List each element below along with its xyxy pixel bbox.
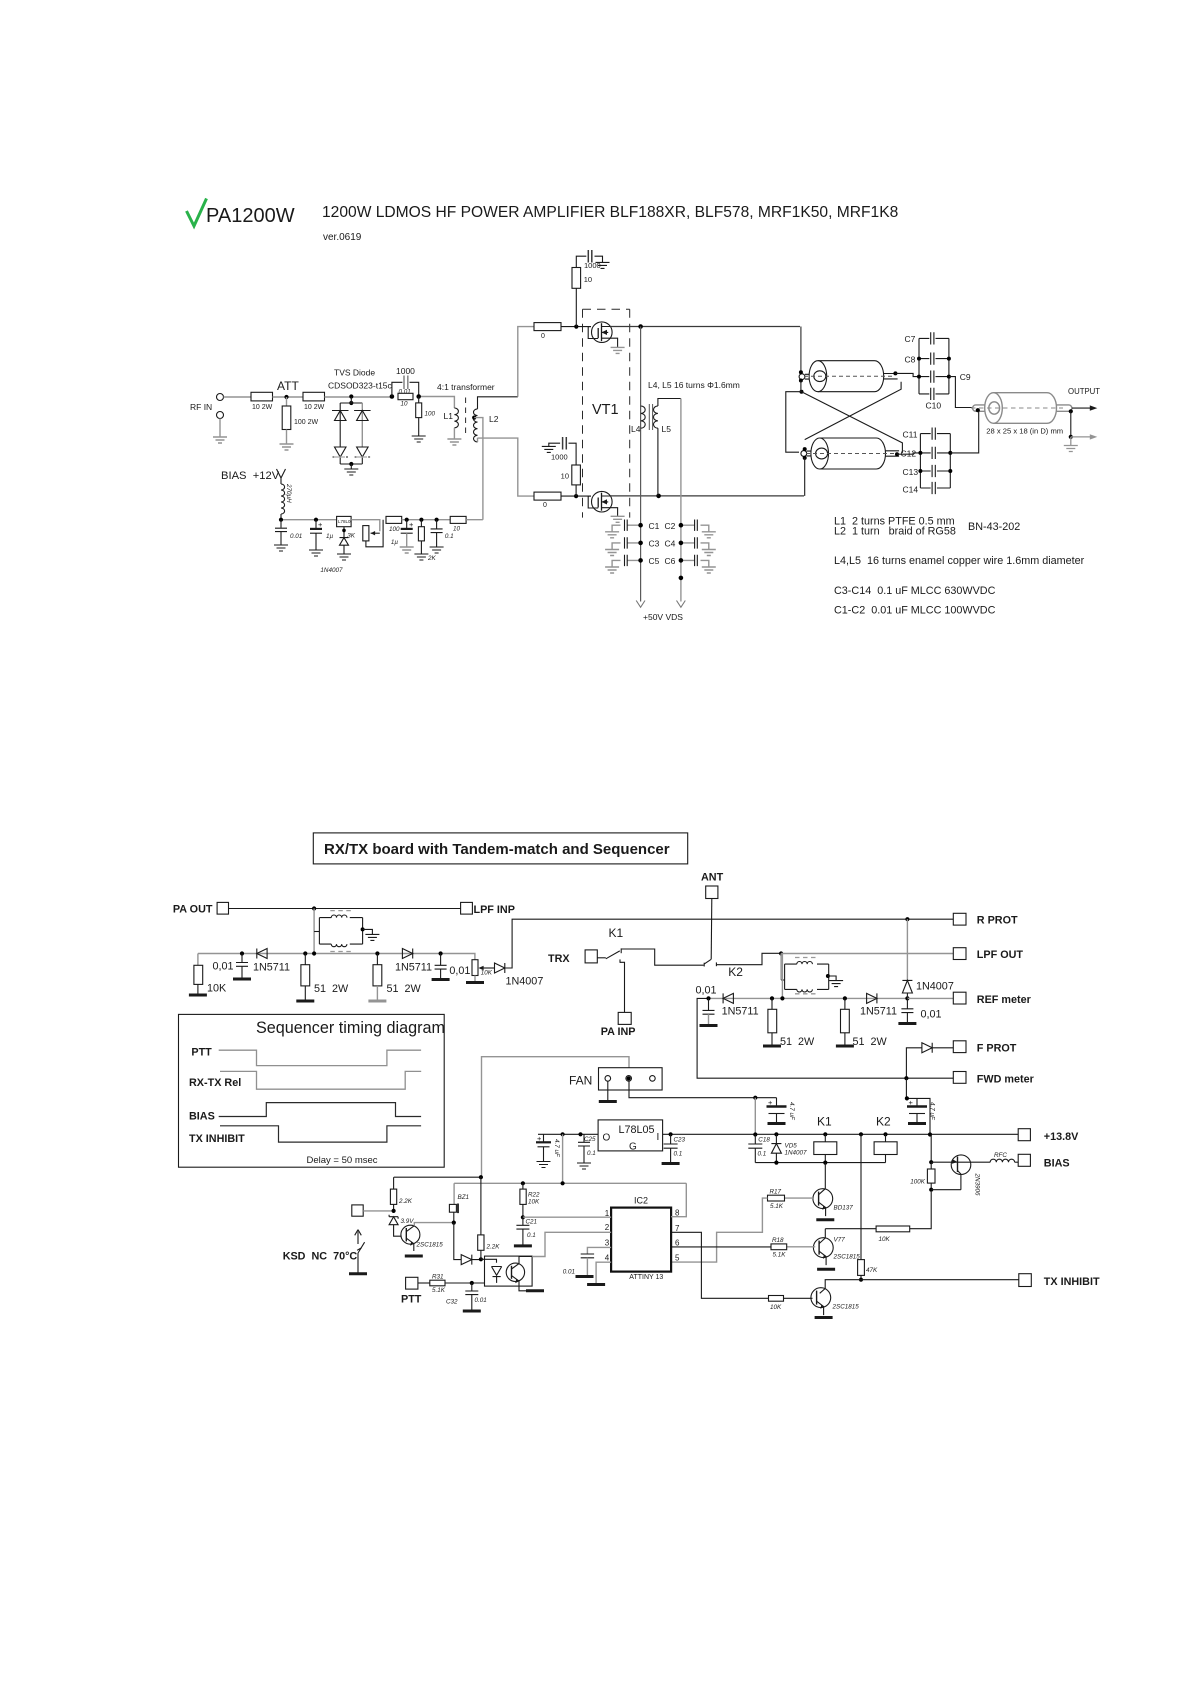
svg-text:1000: 1000 xyxy=(396,366,415,376)
ground xyxy=(1064,446,1078,452)
svg-text:+: + xyxy=(909,1098,914,1107)
node xyxy=(479,1175,483,1179)
wire R17 to pin5 path xyxy=(671,1198,767,1262)
wire PA OUT to LPF INP xyxy=(229,908,461,910)
capacitor 0.1 xyxy=(431,520,454,547)
SEQUENCER TIMING DIAGRAM xyxy=(179,1014,445,1167)
svg-text:K1: K1 xyxy=(817,1115,832,1129)
resistor R17 xyxy=(768,1189,785,1211)
node xyxy=(479,1257,483,1261)
capacitor 0,01 xyxy=(212,954,248,980)
pad BIAS xyxy=(1018,1154,1069,1169)
node xyxy=(904,1076,908,1080)
capacitor 4.7uF b xyxy=(907,1098,936,1122)
svg-text:+: + xyxy=(409,520,414,529)
svg-text:10: 10 xyxy=(561,472,569,481)
svg-text:28 x 25 x 18 (in D) mm: 28 x 25 x 18 (in D) mm xyxy=(986,427,1063,436)
ground xyxy=(662,1163,680,1165)
ground xyxy=(296,1000,314,1002)
svg-text:10 2W: 10 2W xyxy=(304,404,325,411)
svg-text:L1: L1 xyxy=(444,411,454,421)
wire pin4 ground xyxy=(596,1262,611,1284)
ground xyxy=(587,1284,605,1286)
inductor L1 xyxy=(444,408,459,439)
node xyxy=(859,1132,863,1136)
output coax stub left xyxy=(973,405,989,411)
svg-text:5.1K: 5.1K xyxy=(432,1287,446,1294)
capacitor 4.7uF c xyxy=(536,1134,560,1162)
wire REF meter xyxy=(907,997,953,999)
pad ANT xyxy=(701,872,724,899)
svg-text:10: 10 xyxy=(584,275,592,284)
ground source lower xyxy=(611,516,625,522)
svg-text:LPF OUT: LPF OUT xyxy=(977,949,1024,961)
wire LPF OUT xyxy=(781,953,953,955)
TVS diode bridge xyxy=(332,397,371,469)
wire upper drain to coax xyxy=(800,327,802,371)
ground xyxy=(596,262,610,268)
capacitor C4 xyxy=(665,537,709,549)
arrow +50V VDS left xyxy=(636,601,645,608)
ground opto xyxy=(526,1290,544,1292)
svg-text:L4,L5 16 turns enamel copper: L4,L5 16 turns enamel copper wire 1.6mm … xyxy=(834,555,1085,567)
lower coax stub xyxy=(801,447,813,460)
relay K1 contacts xyxy=(597,948,703,965)
relay coil K2 xyxy=(874,1115,897,1163)
wire ANT to K2 xyxy=(710,899,713,960)
resistor 51 2W a xyxy=(301,954,349,1002)
svg-text:TX INHIBIT: TX INHIBIT xyxy=(1044,1276,1100,1288)
svg-text:C3-C14 0.1 uF MLCC 630WVDC: C3-C14 0.1 uF MLCC 630WVDC xyxy=(834,585,996,597)
VT1 dashed box xyxy=(583,309,630,517)
ground xyxy=(817,1268,835,1270)
drain line B xyxy=(680,399,682,602)
svg-text:1N4007: 1N4007 xyxy=(785,1150,808,1157)
svg-text:CDSOD323-t15c: CDSOD323-t15c xyxy=(328,381,393,391)
IC2 xyxy=(605,1196,680,1282)
svg-text:VT1: VT1 xyxy=(592,402,619,418)
wire drain upper xyxy=(611,326,801,328)
node xyxy=(779,951,783,955)
+5V rail xyxy=(562,1134,564,1183)
svg-text:2SC1815: 2SC1815 xyxy=(833,1254,861,1261)
node drain upper xyxy=(638,324,643,329)
diode 1N5711 a xyxy=(253,949,290,974)
svg-text:C25: C25 xyxy=(584,1136,596,1143)
svg-text:5.1K: 5.1K xyxy=(770,1203,784,1210)
regulator L78L05 xyxy=(598,1120,663,1153)
ground xyxy=(430,547,444,553)
svg-text:1N5711: 1N5711 xyxy=(722,1006,759,1018)
resistor 0 gate upper xyxy=(534,323,561,340)
svg-text:ATTINY 13: ATTINY 13 xyxy=(629,1274,663,1281)
ground xyxy=(576,1276,594,1278)
zener 3.9V xyxy=(389,1215,414,1237)
svg-text:47K: 47K xyxy=(866,1267,878,1274)
wire pin3 cap xyxy=(563,1247,611,1275)
svg-text:4.7 uF: 4.7 uF xyxy=(788,1102,795,1121)
capacitor 0,01 d xyxy=(901,998,941,1023)
svg-text:C2: C2 xyxy=(665,521,676,531)
node ATT xyxy=(284,395,288,399)
svg-text:1N4007: 1N4007 xyxy=(506,976,544,988)
svg-text:C13: C13 xyxy=(903,467,919,477)
ground xyxy=(432,979,450,981)
node gate lower xyxy=(574,494,578,498)
wire L2 top to gate line xyxy=(478,397,518,409)
ground xyxy=(344,469,358,475)
wire xyxy=(325,396,393,398)
svg-text:C12: C12 xyxy=(901,449,917,459)
pad LPF INP xyxy=(461,902,515,916)
svg-text:270µH: 270µH xyxy=(285,483,292,503)
logo checkmark xyxy=(187,199,207,227)
node xyxy=(929,1188,933,1192)
resistor R31 xyxy=(418,1274,485,1295)
resistor 10K base q4 xyxy=(769,1296,784,1312)
svg-text:0.1: 0.1 xyxy=(674,1151,683,1158)
wire pin7 to 10K xyxy=(671,1232,768,1298)
diode 1N5711 c xyxy=(722,993,759,1017)
svg-text:L78L05: L78L05 xyxy=(619,1124,655,1136)
node xyxy=(349,394,353,398)
thermal switch KSD xyxy=(355,1230,365,1274)
svg-text:C1: C1 xyxy=(649,521,660,531)
ground xyxy=(400,547,414,553)
svg-text:51 2W: 51 2W xyxy=(780,1036,815,1048)
resistor R22 xyxy=(520,1183,540,1217)
node L2 tap xyxy=(472,416,476,420)
svg-text:PA INP: PA INP xyxy=(601,1026,636,1038)
diode F PROT xyxy=(906,1043,953,1078)
svg-text:0.01: 0.01 xyxy=(563,1269,575,1276)
svg-text:LPF INP: LPF INP xyxy=(474,904,515,916)
resistor 47K xyxy=(858,1260,878,1280)
svg-text:BIAS +12V: BIAS +12V xyxy=(221,470,280,482)
svg-text:L78L0: L78L0 xyxy=(338,519,351,524)
node xyxy=(1069,409,1073,413)
svg-text:C9: C9 xyxy=(960,372,971,382)
node xyxy=(753,1132,757,1136)
svg-text:BD137: BD137 xyxy=(834,1205,854,1212)
svg-text:10K: 10K xyxy=(481,969,493,976)
svg-text:0.1: 0.1 xyxy=(758,1151,767,1158)
pad R PROT xyxy=(953,913,1018,926)
resistor 10 2W second xyxy=(303,392,325,411)
svg-text:1200W LDMOS HF POWER AMPLIFIER: 1200W LDMOS HF POWER AMPLIFIER BLF188XR,… xyxy=(322,204,898,221)
bias input fork xyxy=(277,469,286,484)
svg-text:6: 6 xyxy=(675,1238,680,1247)
resistor 0 gate lower xyxy=(534,492,561,509)
svg-text:10: 10 xyxy=(401,401,409,408)
ground xyxy=(702,532,716,538)
svg-text:C23: C23 xyxy=(674,1137,686,1144)
svg-text:+13.8V: +13.8V xyxy=(1044,1131,1079,1143)
wire xyxy=(561,495,591,497)
svg-text:C11: C11 xyxy=(903,430,918,440)
svg-text:TX INHIBIT: TX INHIBIT xyxy=(189,1133,245,1145)
svg-text:0.01: 0.01 xyxy=(475,1297,487,1304)
svg-text:ANT: ANT xyxy=(701,872,724,884)
pad PA INP xyxy=(601,1012,636,1038)
wire pin8 riser xyxy=(671,1183,686,1216)
ground xyxy=(349,1273,367,1275)
svg-text:C4: C4 xyxy=(665,539,676,549)
wire xyxy=(466,519,483,521)
ground xyxy=(337,554,351,560)
ground xyxy=(829,981,843,987)
svg-text:100: 100 xyxy=(389,526,400,533)
svg-text:10K: 10K xyxy=(770,1304,782,1311)
svg-text:K2: K2 xyxy=(876,1115,891,1129)
svg-text:BIAS: BIAS xyxy=(189,1111,215,1123)
wire bz1 node down to diode xyxy=(454,1223,461,1260)
svg-text:Sequencer timing diagram: Sequencer timing diagram xyxy=(256,1019,445,1037)
svg-text:1N5711: 1N5711 xyxy=(395,962,432,974)
svg-text:C21: C21 xyxy=(526,1219,538,1226)
output coax cylinder xyxy=(971,393,1072,424)
wire braid link left xyxy=(786,381,802,453)
ground xyxy=(816,1219,834,1221)
node xyxy=(905,996,909,1000)
svg-text:0,01: 0,01 xyxy=(921,1009,942,1021)
diode 1N4007 xyxy=(320,527,348,574)
svg-text:V77: V77 xyxy=(834,1237,846,1244)
svg-text:5.1K: 5.1K xyxy=(773,1252,787,1259)
core bars xyxy=(649,404,652,430)
ground xyxy=(537,1162,551,1168)
optocoupler PC1 xyxy=(481,1256,532,1286)
svg-text:0: 0 xyxy=(543,502,547,509)
wire left leg to FWD line xyxy=(697,998,953,1078)
node xyxy=(375,951,379,955)
svg-text:R17: R17 xyxy=(770,1189,782,1196)
svg-text:RX/TX board with Tandem-match: RX/TX board with Tandem-match and Sequen… xyxy=(324,841,670,858)
diode 1N5711 b xyxy=(395,949,432,974)
svg-text:C7: C7 xyxy=(905,334,916,344)
capacitor C5 xyxy=(612,555,660,567)
ground xyxy=(898,1023,916,1025)
capacitor C1 xyxy=(612,520,660,532)
transistor VT1b mosfet xyxy=(588,491,617,516)
feedback resistor 10 upper xyxy=(572,268,592,327)
svg-text:0.01: 0.01 xyxy=(290,533,302,540)
output arrow upper xyxy=(1072,405,1097,410)
ground xyxy=(702,567,716,573)
svg-text:2N3906: 2N3906 xyxy=(974,1173,981,1197)
svg-text:+50V VDS: +50V VDS xyxy=(643,612,683,622)
inductor RFC xyxy=(990,1152,1018,1162)
svg-text:R22: R22 xyxy=(528,1192,540,1199)
svg-text:1µ: 1µ xyxy=(326,533,334,540)
capacitor C23 xyxy=(664,1134,686,1163)
node xyxy=(706,996,710,1000)
ground xyxy=(815,1317,833,1319)
node xyxy=(976,408,980,412)
wire to C11 bank xyxy=(897,453,920,454)
svg-text:4: 4 xyxy=(605,1254,610,1263)
capacitor 1u polarized second xyxy=(391,520,414,547)
svg-text:1N4007: 1N4007 xyxy=(320,567,343,574)
capacitor bank C11-C14 xyxy=(901,428,953,495)
node xyxy=(753,1096,757,1100)
ground xyxy=(233,978,251,980)
board title box xyxy=(313,833,687,864)
node low stub xyxy=(800,390,804,394)
ground xyxy=(412,436,426,442)
capacitor C3 xyxy=(612,537,660,549)
wire L5 bottom to lower drain xyxy=(657,428,659,496)
svg-text:L4, L5 16 turns Φ1.6mm: L4, L5 16 turns Φ1.6mm xyxy=(648,380,740,390)
resistor 100 2W xyxy=(282,397,318,444)
connector FAN xyxy=(569,1068,662,1090)
transistor 2N3906 xyxy=(931,1155,990,1196)
+13.8V rail xyxy=(663,1133,1019,1135)
svg-text:2SC1815: 2SC1815 xyxy=(416,1242,444,1249)
wire lower coax down link xyxy=(804,458,806,496)
capacitor 4.7uF a xyxy=(767,1098,796,1123)
ground xyxy=(447,439,461,445)
svg-text:I: I xyxy=(657,1132,660,1143)
ground xyxy=(763,1045,781,1047)
svg-text:REF meter: REF meter xyxy=(977,994,1032,1006)
svg-text:L5: L5 xyxy=(662,424,672,434)
svg-text:K2: K2 xyxy=(728,965,743,979)
node xyxy=(312,906,316,910)
node xyxy=(521,1181,525,1185)
inductor 270uH xyxy=(281,483,292,520)
node xyxy=(679,576,684,581)
resistor 10K collector xyxy=(825,1192,931,1243)
node drain lower xyxy=(656,494,661,499)
resistor 100 xyxy=(416,397,436,437)
svg-text:+: + xyxy=(768,1098,773,1107)
svg-text:PTT: PTT xyxy=(401,1294,422,1306)
pad PA OUT xyxy=(173,902,229,915)
svg-text:BN-43-202: BN-43-202 xyxy=(968,521,1020,533)
pad FWD meter xyxy=(953,1072,1034,1086)
ground xyxy=(466,982,484,984)
capacitor C18 xyxy=(748,1135,770,1163)
svg-text:R18: R18 xyxy=(772,1237,784,1244)
resistor 10K xyxy=(194,954,227,996)
ground xyxy=(463,1310,481,1312)
capacitor 1u polarized xyxy=(310,520,334,550)
ground xyxy=(836,1045,854,1047)
transistor Q4 2SC1815 xyxy=(784,1288,860,1315)
capacitor C2 xyxy=(665,520,709,532)
diode VD5 1N4007 xyxy=(771,1134,807,1164)
svg-text:F PROT: F PROT xyxy=(977,1043,1017,1055)
svg-text:C3: C3 xyxy=(649,539,660,549)
ground xyxy=(605,532,619,538)
svg-text:OUTPUT: OUTPUT xyxy=(1068,387,1100,396)
svg-text:ver.0619: ver.0619 xyxy=(323,232,362,243)
svg-text:10K: 10K xyxy=(207,983,227,995)
node xyxy=(859,1278,863,1282)
wire bank to output coax xyxy=(949,377,973,408)
sequencer input: 13.8 line xyxy=(394,1176,481,1178)
connector RF IN xyxy=(217,394,224,438)
wire R22 node to pin1 xyxy=(523,1216,611,1218)
svg-text:3: 3 xyxy=(605,1238,610,1247)
wire fan to rail xyxy=(629,1081,777,1098)
svg-text:1N4007: 1N4007 xyxy=(916,981,954,993)
wire xyxy=(273,396,304,398)
svg-text:KSD NC 70°C: KSD NC 70°C xyxy=(283,1250,358,1262)
wire pin6 to R18 xyxy=(671,1246,771,1248)
resistor 100 xyxy=(386,516,402,533)
svg-text:4.7 uF: 4.7 uF xyxy=(553,1139,560,1158)
svg-text:1N5711: 1N5711 xyxy=(860,1006,897,1018)
cross wire 2 xyxy=(805,382,901,440)
svg-text:PA1200W: PA1200W xyxy=(206,205,295,227)
pad TX INHIBIT xyxy=(1019,1274,1100,1288)
svg-text:C32: C32 xyxy=(446,1299,458,1306)
ground xyxy=(405,1255,423,1257)
svg-text:10: 10 xyxy=(453,526,461,533)
ground source upper xyxy=(611,347,625,353)
node fan feed xyxy=(627,1076,631,1080)
wire xyxy=(561,326,591,328)
wire 13.8 to 2N3906 xyxy=(930,1135,932,1163)
svg-text:RF IN: RF IN xyxy=(190,402,212,412)
transistor VT1a mosfet xyxy=(588,322,617,347)
resistor 51 2W b xyxy=(373,954,422,1002)
wire opto collector to pin2 xyxy=(532,1232,611,1256)
resistor 51 2W d xyxy=(841,998,888,1048)
node xyxy=(561,1181,565,1185)
resistor 51 2W c xyxy=(768,998,815,1048)
ground xyxy=(577,1163,591,1169)
svg-text:0,01: 0,01 xyxy=(449,965,470,977)
bias rail wire xyxy=(281,519,337,521)
node xyxy=(561,1132,565,1136)
wire 13.8V feed to sequencer xyxy=(482,1057,630,1178)
capacitor 0,01 c xyxy=(696,985,717,1026)
wire L5 top to line B xyxy=(658,399,681,407)
svg-text:PA OUT: PA OUT xyxy=(173,904,213,916)
rail wire tandem 1 xyxy=(198,954,475,960)
wire regulator output xyxy=(538,1133,598,1135)
capacitor C32 xyxy=(446,1283,487,1311)
ground xyxy=(280,444,294,450)
inductor L2 xyxy=(474,409,499,442)
svg-text:+: + xyxy=(318,520,323,529)
svg-text:BIAS: BIAS xyxy=(1044,1157,1070,1169)
svg-text:51 2W: 51 2W xyxy=(853,1036,888,1048)
ground xyxy=(365,934,379,940)
ground xyxy=(605,550,619,556)
wire xyxy=(421,397,454,409)
node xyxy=(578,1132,582,1136)
svg-text:7: 7 xyxy=(675,1224,680,1233)
node xyxy=(521,1215,525,1219)
node xyxy=(780,996,784,1000)
ground FAN xyxy=(599,1081,617,1101)
relay K2 contacts xyxy=(704,953,781,966)
resistor 2.2K a xyxy=(390,1177,412,1211)
capacitor 1000 loop xyxy=(392,366,419,397)
node xyxy=(312,951,316,955)
wire riser to 13.8 rail xyxy=(754,1098,756,1135)
svg-text:1000: 1000 xyxy=(551,453,568,462)
svg-text:4.7 uF: 4.7 uF xyxy=(929,1102,936,1121)
node xyxy=(843,996,847,1000)
ground xyxy=(189,994,207,996)
svg-text:Delay = 50 msec: Delay = 50 msec xyxy=(307,1155,378,1166)
node xyxy=(240,951,244,955)
